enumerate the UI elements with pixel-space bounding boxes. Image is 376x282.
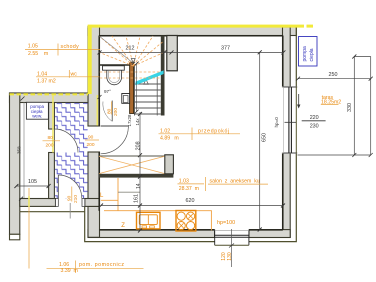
svg-text:90: 90 — [88, 135, 94, 141]
svg-text:200: 200 — [87, 142, 95, 148]
door4 jambs — [56, 199, 85, 207]
door annex-hall leaf — [101, 125, 129, 127]
svg-text:1.04: 1.04 — [37, 71, 47, 77]
door label 90/210 rotated — [66, 187, 79, 204]
svg-text:377: 377 — [221, 46, 230, 52]
yellow left line — [88, 25, 92, 94]
yellow door3 line — [52, 95, 54, 153]
svg-text:4.89 m: 4.89 m — [160, 136, 179, 142]
svg-text:130: 130 — [227, 252, 233, 261]
room label 1.04 wc — [36, 70, 100, 84]
svg-text:358: 358 — [17, 146, 22, 154]
pompa box outside — [299, 37, 318, 67]
wall bottom left part — [88, 230, 215, 238]
plinth offset line bottom — [85, 27, 297, 242]
annex bottom wall pier — [85, 199, 100, 207]
room label 1.02 przedpokoj — [159, 128, 241, 142]
door4 axis line — [69, 203, 71, 219]
taras label — [321, 95, 342, 105]
svg-text:105: 105 — [28, 179, 37, 185]
svg-text:1.05: 1.05 — [28, 44, 38, 50]
svg-text:210: 210 — [73, 195, 79, 203]
svg-text:220: 220 — [310, 115, 319, 121]
svg-text:17x28: 17x28 — [127, 114, 132, 127]
svg-text:pompa: pompa — [302, 46, 308, 62]
wall left bottom (salon west) — [88, 206, 100, 237]
door label 80/200 wc rotated — [106, 102, 119, 117]
svg-text:ciepła: ciepła — [309, 48, 315, 61]
dim 650 — [258, 50, 268, 231]
corner tick annex — [19, 95, 102, 201]
dim 105 — [14, 179, 50, 188]
wc door jamb box — [122, 94, 130, 104]
dim 358 rotated on wall — [17, 146, 22, 154]
divider wall przedpokoj/room — [167, 36, 178, 71]
hatch area (ramp) — [55, 103, 88, 199]
wc divider wall — [100, 64, 134, 66]
stairs inner stringer — [156, 75, 158, 116]
svg-text:28.37 m: 28.37 m — [179, 186, 199, 192]
svg-text:80: 80 — [48, 135, 54, 141]
door3 leaf and arc — [55, 129, 79, 153]
svg-text:620: 620 — [186, 198, 195, 204]
yellow inner face line — [96, 95, 98, 126]
stairs direction triangle — [144, 80, 149, 85]
wc door leaf — [103, 101, 112, 122]
hatch bite door3 — [55, 129, 79, 153]
svg-text:650: 650 — [261, 133, 267, 142]
bottom window labels 120 130 — [221, 252, 233, 261]
fan rays (upper flight dashed) — [100, 36, 163, 66]
svg-text:salon z aneksem ku: salon z aneksem ku — [210, 178, 260, 184]
svg-text:schody: schody — [61, 44, 80, 50]
svg-text:Z: Z — [121, 223, 125, 229]
stairs treads — [135, 84, 161, 114]
annex bottom wall left — [20, 199, 56, 207]
svg-text:90: 90 — [66, 195, 72, 201]
wardrobe X box — [99, 156, 165, 174]
hp=100 label — [217, 220, 235, 226]
wc right wall brown — [130, 63, 134, 114]
bottom window axis — [229, 229, 234, 267]
svg-text:212: 212 — [126, 46, 135, 52]
svg-text:14x: 14x — [135, 118, 140, 126]
sink — [137, 212, 161, 229]
room label 1.03 salon — [178, 177, 269, 192]
svg-text:hp=0: hp=0 — [274, 117, 279, 128]
dim vertical 208 — [136, 112, 142, 150]
kitchen counter line — [104, 211, 212, 231]
wc angle label — [104, 89, 111, 94]
svg-text:1.02: 1.02 — [160, 128, 170, 134]
wall left mid below door — [88, 152, 100, 206]
svg-text:200: 200 — [113, 108, 119, 116]
right window hp label — [274, 117, 279, 128]
dim 330 — [347, 55, 356, 158]
svg-text:230: 230 — [310, 124, 319, 130]
wall top — [88, 27, 296, 36]
stairwell right wall — [161, 36, 165, 116]
dim vertical 161/14 — [134, 112, 142, 233]
wall bottom right part — [249, 230, 290, 238]
right window — [283, 86, 298, 153]
toilet bowl — [107, 70, 122, 84]
annex left wall — [10, 93, 20, 234]
fan horizontal dashes through wc — [100, 72, 161, 78]
door label 90/200 — [85, 135, 99, 149]
door4 leaf and arc — [58, 175, 82, 199]
dim 250 — [296, 72, 373, 81]
bottom window — [215, 229, 249, 246]
annex inner finish line — [23, 103, 25, 200]
wall right upper — [283, 27, 291, 87]
yellow top line — [88, 25, 313, 28]
annex south facade line — [20, 211, 85, 213]
svg-text:przedpokój: przedpokój — [198, 129, 230, 135]
room label 1.06 pom pomocnicze — [29, 188, 144, 274]
svg-text:1.03: 1.03 — [179, 178, 189, 184]
fan corner solid line — [100, 37, 133, 63]
hatch bite door4 — [58, 175, 82, 199]
door annex-hall arc — [101, 126, 129, 154]
svg-text:97°: 97° — [104, 89, 111, 94]
yellow tick on annex bottom wall — [28, 196, 30, 207]
svg-text:1.37 m2: 1.37 m2 — [37, 78, 56, 84]
svg-text:wew.: wew. — [32, 114, 42, 119]
stairs riser dim — [127, 62, 140, 127]
svg-text:208: 208 — [136, 141, 142, 150]
annex top wall — [10, 93, 89, 103]
dim 620 — [99, 198, 285, 208]
right window labels 220 230 — [302, 115, 326, 129]
wall left upper (stairs/wc) — [88, 27, 100, 127]
exit arrow — [297, 94, 300, 109]
terrace corner ticks — [352, 55, 372, 158]
svg-text:161: 161 — [134, 194, 140, 203]
svg-text:2.55 m: 2.55 m — [28, 51, 48, 57]
cyan cut band — [136, 70, 164, 85]
stairs left stringer — [134, 66, 136, 116]
svg-text:200: 200 — [46, 143, 54, 149]
annex middle wall upper — [49, 103, 55, 130]
stove — [176, 211, 196, 232]
interior face emphasis lines — [99, 36, 283, 230]
svg-text:3.39 m: 3.39 m — [61, 268, 78, 274]
svg-text:pom. pomocnicz: pom. pomocnicz — [79, 262, 124, 268]
svg-text:330: 330 — [347, 103, 353, 112]
svg-text:wc: wc — [71, 71, 78, 77]
dim chain 212/377 — [98, 46, 286, 55]
toilet cistern — [103, 66, 125, 70]
kitchen letters — [100, 193, 125, 229]
annex left wall bottom cap — [10, 234, 20, 240]
yellow annex dashed line — [10, 93, 89, 95]
terrace outline — [298, 57, 371, 156]
wall right lower — [283, 153, 291, 237]
door label 80/200 annex — [43, 135, 61, 149]
wardrobe wall stub — [165, 155, 174, 174]
svg-text:250: 250 — [329, 72, 338, 78]
wardrobe bottom wall strip — [99, 174, 173, 178]
fan center marker — [131, 59, 135, 65]
room label 1.05 schody — [25, 44, 100, 58]
kitchen tall cabinet line — [101, 178, 140, 211]
annex middle wall lower — [49, 153, 55, 199]
pompa box annex — [26, 102, 48, 119]
svg-text:hp=100: hp=100 — [217, 220, 235, 226]
svg-text:14: 14 — [136, 183, 142, 189]
